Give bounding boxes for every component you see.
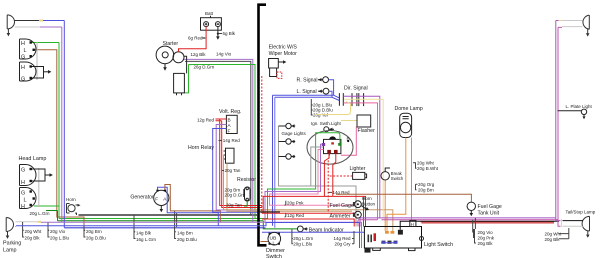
svg-text:B: B — [228, 118, 231, 123]
svg-text:20g D.Grn: 20g D.Grn — [225, 193, 246, 198]
svg-text:20g Pnk: 20g Pnk — [287, 200, 304, 205]
svg-text:Batt: Batt — [205, 11, 214, 16]
svg-text:Parking: Parking — [3, 241, 21, 247]
svg-text:H: H — [21, 65, 25, 71]
svg-text:Lamp: Lamp — [3, 248, 17, 254]
svg-text:20g Wht: 20g Wht — [417, 161, 435, 166]
svg-text:Tail/Stop Lamp: Tail/Stop Lamp — [566, 209, 596, 214]
svg-text:Switch: Switch — [391, 176, 404, 181]
svg-text:14g Blk: 14g Blk — [136, 231, 152, 236]
svg-text:H: H — [21, 204, 25, 210]
svg-text:14g Red: 14g Red — [223, 138, 241, 143]
svg-text:20g Brn: 20g Brn — [418, 188, 434, 193]
svg-text:20g Blk: 20g Blk — [545, 237, 561, 242]
svg-text:20g D.Blu: 20g D.Blu — [86, 235, 106, 240]
svg-text:H: H — [411, 222, 414, 227]
svg-text:14g Vio: 14g Vio — [216, 51, 232, 56]
svg-text:Fuel Gage: Fuel Gage — [330, 203, 354, 209]
svg-text:20g Org: 20g Org — [418, 182, 435, 187]
svg-text:20g Tan: 20g Tan — [226, 203, 242, 208]
svg-text:20g Tan: 20g Tan — [225, 168, 241, 173]
svg-text:20g Vio: 20g Vio — [478, 230, 494, 235]
svg-text:20g D.Blu: 20g D.Blu — [177, 237, 197, 242]
svg-text:L. Plate Light: L. Plate Light — [566, 104, 593, 109]
svg-text:6g Blk: 6g Blk — [223, 31, 236, 36]
svg-text:Lighter: Lighter — [350, 166, 366, 172]
svg-text:Button: Button — [362, 201, 376, 206]
svg-text:6g Red: 6g Red — [188, 36, 203, 41]
svg-text:20g Blk: 20g Blk — [25, 235, 41, 240]
svg-text:26g D.Grn: 26g D.Grn — [194, 65, 215, 70]
svg-text:R. Signal: R. Signal — [297, 78, 318, 84]
svg-text:Ammeter: Ammeter — [330, 213, 351, 219]
svg-text:Wiper Motor: Wiper Motor — [269, 51, 298, 57]
svg-text:G: G — [21, 168, 25, 174]
svg-text:12g Blk: 12g Blk — [191, 52, 207, 57]
svg-text:20g Blk: 20g Blk — [478, 241, 494, 246]
svg-text:14g Red: 14g Red — [333, 236, 351, 241]
svg-text:20g L.Blu: 20g L.Blu — [50, 235, 70, 240]
svg-text:Flasher: Flasher — [358, 128, 376, 134]
svg-text:Generator: Generator — [130, 195, 154, 201]
svg-text:G: G — [21, 77, 25, 83]
svg-text:Head Lamp: Head Lamp — [19, 156, 47, 162]
svg-text:L. Signal: L. Signal — [297, 89, 317, 95]
svg-text:Horn: Horn — [362, 196, 372, 201]
svg-text:20g L.Blu: 20g L.Blu — [293, 241, 313, 246]
svg-text:12g Red: 12g Red — [197, 117, 215, 122]
svg-text:12g Red: 12g Red — [287, 213, 305, 218]
svg-text:20g B.Wht: 20g B.Wht — [417, 166, 439, 171]
svg-text:F: F — [228, 129, 231, 134]
svg-text:16g L.Grn: 16g L.Grn — [136, 237, 157, 242]
svg-text:14g Brn: 14g Brn — [177, 231, 193, 236]
svg-text:G: G — [21, 55, 25, 61]
svg-text:H: H — [21, 41, 25, 47]
svg-text:20g L.Grn: 20g L.Grn — [293, 236, 314, 241]
svg-text:Light Switch: Light Switch — [424, 242, 453, 248]
svg-text:Horn Relay: Horn Relay — [188, 145, 214, 151]
svg-text:20g Pnk: 20g Pnk — [478, 235, 495, 240]
svg-text:Ign. Swth.Light: Ign. Swth.Light — [311, 121, 342, 126]
svg-text:Fuel Gage: Fuel Gage — [478, 204, 502, 210]
svg-text:F: F — [155, 196, 158, 201]
svg-text:Dome Lamp: Dome Lamp — [395, 106, 423, 112]
svg-text:Horn: Horn — [66, 197, 76, 202]
svg-text:20g Wht: 20g Wht — [25, 229, 43, 234]
svg-text:20g Vio: 20g Vio — [50, 229, 66, 234]
svg-text:G: G — [21, 191, 25, 197]
svg-text:Electric W/S: Electric W/S — [269, 45, 298, 51]
svg-text:L: L — [24, 48, 27, 54]
svg-text:Resistor: Resistor — [237, 177, 256, 183]
svg-text:20g Gry: 20g Gry — [334, 241, 351, 246]
svg-text:20g L.Grn: 20g L.Grn — [30, 211, 51, 216]
svg-text:L: L — [24, 198, 27, 204]
svg-text:Tank Unit: Tank Unit — [478, 211, 500, 217]
svg-text:Dir. Signal: Dir. Signal — [344, 86, 368, 92]
svg-text:Switch: Switch — [266, 254, 282, 258]
svg-text:H: H — [21, 180, 25, 186]
svg-text:Volt. Reg.: Volt. Reg. — [219, 109, 242, 115]
svg-text:Gage Lights: Gage Lights — [282, 131, 307, 136]
svg-text:20g Brn: 20g Brn — [86, 229, 102, 234]
